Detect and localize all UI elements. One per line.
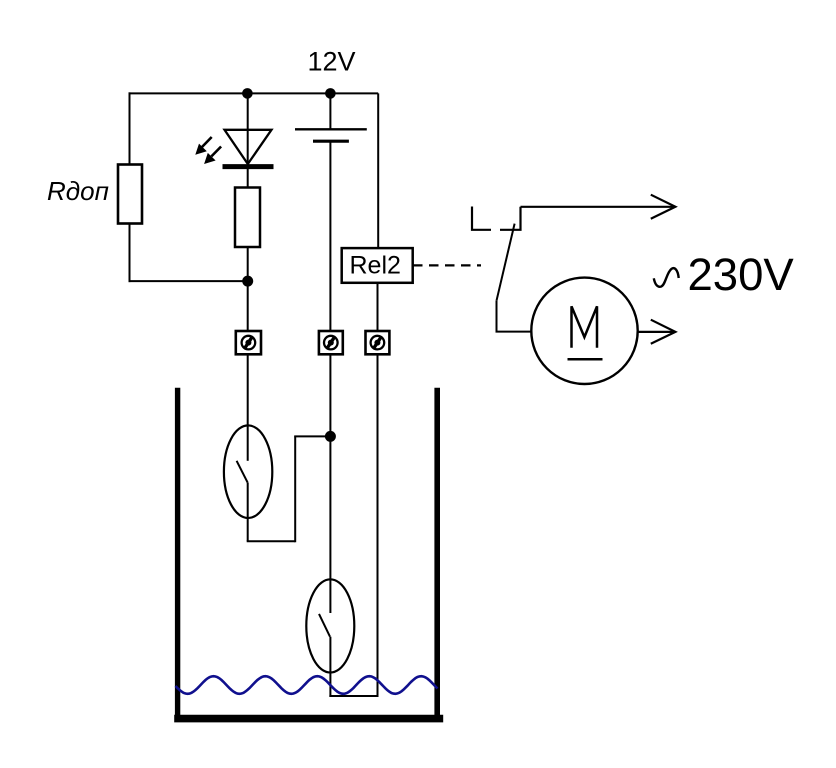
relay contact K1: fixed contact corner [500,207,521,230]
wire: R1 bottom to node A [247,247,249,281]
wire: to motor left terminal [496,331,533,333]
wire: X2 down to node B [329,354,331,436]
AC sine symbol [654,268,679,287]
wire: blade down [496,301,498,332]
node: top rail / battery branch junction [325,88,336,99]
wire: battery bottom lead to terminal X2 [329,141,331,332]
resistor Rdop body [118,165,142,224]
svg-text:230V: 230V [688,249,795,300]
wire: left branch vertical (to Rdop) [129,92,131,166]
wire: dashed link Rel2 to contact [413,264,481,266]
LED light arrow 1 [195,137,211,155]
LED light arrow 2 [204,147,221,165]
wire: X1 down to float switch S1 [247,354,249,427]
relay coil Rel2 box [342,248,413,283]
wire: line L to the right with arrow [521,206,674,208]
LED D1 cathode bar [223,164,274,169]
svg-text:12V: 12V [308,47,356,77]
switch S2 blade [319,614,330,637]
wire: top 12V rail [129,92,379,94]
terminal X2 (cable gland) [319,331,343,354]
wire: motor right lead [638,331,673,333]
svg-text:Rel2: Rel2 [350,251,401,279]
node: top rail / LED branch junction [242,88,253,99]
motor M underline [568,358,603,361]
wire: riser up to node B [294,436,296,542]
terminal X1 (cable gland) [236,331,261,354]
wire: horizontal into node B [294,435,330,437]
wire: X3 down into tank [377,354,379,697]
arrow head motor output [651,320,676,344]
svg-text:Rдоп: Rдоп [47,176,109,206]
wire: S2 bottom horizontal to X3 branch [329,695,377,697]
wire: S2 top lead inside float [329,579,331,613]
wire: LED to resistor R1 [247,166,249,189]
wire: node B down to float switch S2 [329,436,331,581]
wire: S1 bottom horizontal [247,540,296,542]
wire: Rel2 bottom lead to terminal X3 [377,283,379,332]
battery B1 positive plate [295,128,367,130]
tank bottom [174,715,443,723]
wire: node A down to terminal X1 [247,281,249,332]
float switch S1 body [224,425,272,518]
tank right wall [434,388,440,722]
wire: right branch down to Rel2 [377,93,379,249]
node A junction dot [242,276,253,287]
tank left wall [175,388,180,722]
motor M1 body [531,278,637,384]
wire: S1 bottom lead [247,483,249,542]
wire: LED branch top lead [247,93,249,163]
relay contact K1: left bracket [472,207,491,230]
wire: S1 top lead inside float [247,425,249,460]
water surface wave [176,676,438,694]
relay contact K1: moving blade [497,224,515,301]
resistor R1 body [235,188,260,248]
LED D1 triangle [225,130,272,164]
arrow head line L [651,195,676,219]
motor M letter [572,306,598,347]
wire: Rdop bottom lead [129,224,131,283]
terminal X3 (cable gland) [366,331,390,354]
switch S1 blade [237,461,248,483]
wire: bottom-left horizontal to node A [129,280,249,282]
node B junction dot [325,431,336,442]
battery B1 negative plate [313,140,349,143]
float switch S2 body [306,579,354,672]
wire: battery top lead [329,93,331,130]
wire: S2 bottom lead [329,637,331,697]
